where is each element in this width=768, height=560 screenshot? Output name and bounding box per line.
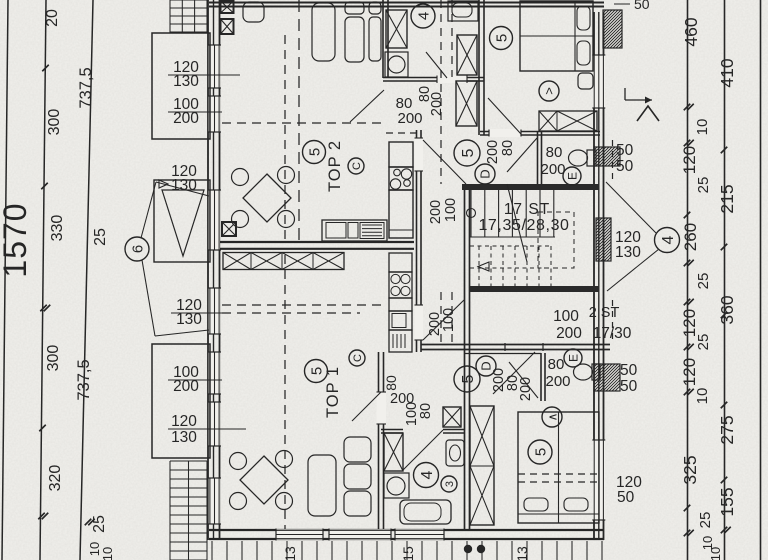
door swing bedroom top-right — [488, 98, 521, 134]
wall bottom apartment hall top — [421, 344, 610, 346]
svg-text:200: 200 — [485, 140, 501, 164]
dim tick — [42, 65, 49, 72]
bath washbasin top-right — [385, 52, 408, 77]
dim tick — [684, 260, 691, 267]
chair TOP1 a — [230, 453, 247, 470]
svg-text:C: C — [352, 354, 364, 362]
svg-text:100: 100 — [441, 308, 457, 332]
dashed lines across bed lower — [518, 473, 599, 475]
stair newel circle — [467, 209, 476, 218]
wall top exterior — [209, 1, 604, 3]
wall bedroom bottom top-right — [480, 131, 600, 133]
wc square bottom — [446, 440, 464, 466]
svg-text:410: 410 — [717, 58, 737, 87]
svg-text:200: 200 — [429, 92, 445, 116]
label circle E wc top — [563, 167, 581, 185]
armchair top left — [243, 2, 264, 22]
small arrow left — [159, 180, 168, 188]
leader from circle 6 up — [141, 182, 156, 238]
wardrobe xbox hall — [456, 81, 477, 126]
pillow bottom a — [524, 498, 548, 511]
dim tick — [684, 104, 691, 111]
svg-text:200: 200 — [556, 325, 582, 342]
svg-text:50: 50 — [620, 378, 638, 395]
pillow bottom b — [564, 498, 588, 511]
dashed projection horizontal TOP2 — [222, 122, 383, 124]
svg-text:50: 50 — [634, 0, 650, 12]
washbasin TOP1 bath — [384, 473, 409, 498]
svg-text:4: 4 — [660, 235, 677, 244]
dim tick — [721, 477, 728, 484]
dim line right inner — [687, 0, 689, 560]
svg-text:200: 200 — [390, 391, 414, 407]
sofa cushion b1 — [345, 2, 364, 14]
sofa TOP1 — [308, 455, 336, 516]
sofa cushion b2 — [345, 17, 364, 62]
stair upper flight treads — [470, 190, 472, 237]
svg-text:13: 13 — [282, 546, 298, 560]
door swing bottom apartment entry — [493, 352, 535, 394]
toilet top-right bath — [448, 1, 478, 21]
svg-text:17 ST: 17 ST — [504, 201, 550, 218]
section circle A bedroom top — [539, 81, 559, 101]
dim tick — [684, 344, 691, 351]
sofa cushion c1 — [369, 2, 381, 14]
svg-text:200: 200 — [397, 110, 422, 127]
toilet wc bottom-right — [574, 364, 593, 380]
dim tick — [39, 425, 46, 432]
hatch block right wall wc window upper — [594, 147, 620, 166]
section circle A bedroom bottom — [542, 407, 562, 427]
svg-text:2 ST: 2 ST — [589, 305, 620, 321]
wall wc left vertical bottom-right — [540, 353, 542, 401]
kitchen TOP2 counter — [389, 190, 413, 238]
door gap bath TOP1 wall — [377, 392, 387, 424]
svg-text:C: C — [351, 162, 363, 170]
svg-text:4: 4 — [419, 470, 436, 479]
svg-text:80: 80 — [546, 144, 563, 161]
svg-text:120: 120 — [171, 413, 197, 430]
svg-text:120: 120 — [680, 146, 699, 174]
bathtub TOP1 — [400, 500, 451, 524]
svg-text:737,5: 737,5 — [75, 359, 93, 400]
chair TOP2 c — [232, 211, 249, 228]
dim tick double — [40, 305, 47, 312]
svg-text:4: 4 — [415, 12, 432, 20]
stair lower flight dashed treads — [478, 246, 480, 290]
window left wall mid — [209, 288, 221, 334]
stair mid line — [470, 236, 555, 238]
door gap bath wall top-right — [437, 76, 467, 84]
balcony triangle box — [154, 180, 210, 262]
door swing wc bottom-right — [509, 362, 538, 398]
svg-text:260: 260 — [681, 223, 700, 251]
svg-text:10: 10 — [100, 547, 115, 560]
dim tick — [721, 244, 728, 251]
door left wall balcony2 — [209, 352, 221, 394]
svg-text:5: 5 — [493, 34, 510, 42]
chair TOP2 d — [278, 211, 295, 228]
window right wall bedroom upper — [593, 55, 605, 108]
dim tick — [684, 299, 691, 306]
svg-text:215: 215 — [717, 184, 737, 213]
door left wall balcony1 — [209, 96, 221, 132]
entrance arrow — [625, 99, 652, 101]
window bottom wall bath — [395, 529, 444, 540]
bath tall cabinet xbox — [457, 35, 477, 75]
svg-text:130: 130 — [171, 429, 197, 446]
wall bath bottom horizontal top-right apartment — [383, 77, 484, 79]
svg-text:13: 13 — [514, 546, 530, 560]
svg-text:5: 5 — [460, 374, 477, 383]
svg-text:360: 360 — [717, 295, 737, 324]
balcony box lower — [152, 344, 210, 458]
leader line from circle 4 to stair wall — [606, 182, 656, 233]
label circle C TOP2 — [348, 158, 364, 174]
leader line 120/130 balcony2 — [168, 428, 246, 430]
svg-text:E: E — [565, 172, 579, 180]
washer xbox TOP1 bath — [384, 433, 403, 471]
wall stair bottom horizontal — [470, 286, 599, 292]
window left wall triangle balcony — [209, 190, 221, 250]
door gap bedroom top-right — [489, 129, 521, 137]
pillow b — [577, 41, 590, 65]
wall right exterior — [593, 12, 595, 540]
toilet wc top-right — [569, 150, 588, 166]
label circle 4 bath bottom — [414, 463, 439, 488]
window left wall balcony2 — [209, 402, 221, 446]
svg-text:25: 25 — [695, 334, 712, 351]
stair dashed landing rect — [538, 212, 574, 268]
leader line 120/130 balcony1 — [168, 74, 240, 76]
svg-text:50: 50 — [617, 489, 635, 506]
label circle 3 bath bottom — [441, 476, 457, 492]
label circle C TOP1 — [349, 350, 365, 366]
svg-text:200: 200 — [427, 312, 443, 336]
label circle 5 hall top — [454, 140, 480, 166]
svg-text:E: E — [566, 354, 580, 362]
label circle 6 — [125, 237, 149, 261]
bath xbox upper — [386, 10, 407, 48]
svg-text:10: 10 — [694, 119, 711, 136]
dim tick — [721, 147, 728, 154]
kitchen TOP1 stove — [389, 272, 412, 298]
dashed vertical right of wc lower — [612, 300, 614, 344]
dashed projection horizontal corridor upper — [386, 132, 420, 134]
kitchen TOP2 sink double — [326, 223, 346, 239]
kitchen TOP1 cabinet — [389, 330, 412, 352]
leader from circle 6 down — [142, 260, 155, 336]
svg-text:TOP 1: TOP 1 — [324, 366, 342, 418]
wall corridor left vertical — [416, 130, 418, 352]
svg-text:330: 330 — [49, 215, 66, 242]
svg-text:200: 200 — [545, 373, 570, 390]
chair TOP2 a — [232, 169, 249, 186]
sideboard xbox row TOP1 — [223, 253, 344, 270]
dim tick double — [38, 513, 45, 520]
svg-text:6: 6 — [129, 245, 146, 253]
label circle 5 bedroom top-right — [490, 27, 513, 50]
svg-text:130: 130 — [176, 311, 202, 328]
dim tick — [41, 183, 48, 190]
wardrobe xbox small hall bottom — [443, 407, 461, 427]
kitchen TOP1 sink — [389, 311, 412, 330]
stair lower dashed bounds — [470, 245, 551, 247]
chair TOP1 d — [276, 493, 293, 510]
svg-text:10: 10 — [694, 388, 711, 405]
label circle 5 TOP2 — [303, 141, 326, 164]
svg-text:80: 80 — [418, 403, 434, 419]
dim line left 737,5 — [80, 0, 93, 560]
door swing bath TOP1 — [352, 392, 381, 421]
wall stair top horizontal — [462, 184, 599, 190]
svg-text:200: 200 — [173, 378, 199, 395]
label circle 4 top — [411, 4, 435, 28]
svg-text:25: 25 — [695, 273, 712, 290]
label circle E wc bottom — [564, 349, 582, 367]
svg-text:130: 130 — [615, 244, 641, 261]
svg-text:737,5: 737,5 — [77, 67, 95, 108]
terrace tick strip bottom — [211, 541, 213, 560]
dim line right middle — [724, 0, 726, 560]
hatch block right wall top balcony door — [603, 10, 622, 48]
svg-text:20: 20 — [44, 9, 61, 27]
dashed corridor vertical a — [440, 0, 442, 184]
dashed projection vertical second — [298, 0, 300, 240]
leader line 120/130 mid wall — [171, 312, 222, 314]
dashed vertical right of wc upper — [612, 140, 614, 184]
svg-text:3: 3 — [444, 481, 456, 487]
nightstand — [578, 73, 593, 89]
kitchen TOP2 stove — [389, 167, 413, 190]
dining table TOP2 — [243, 174, 291, 222]
dashed corridor vertical b — [451, 0, 453, 77]
balcony box upper — [152, 33, 210, 139]
door swing bath top-right inner — [426, 52, 447, 78]
wall stair left vertical — [464, 184, 466, 529]
door swing hall top-right entry — [423, 140, 466, 184]
wall wc left vertical top-right — [537, 131, 539, 184]
stair direction arrow — [478, 262, 489, 271]
dashed corridor vertical a lower — [440, 292, 442, 344]
chair TOP1 b — [276, 451, 293, 468]
wall bedroom left vertical top-right — [478, 0, 480, 135]
svg-text:200: 200 — [518, 377, 534, 401]
svg-text:∧: ∧ — [545, 413, 559, 422]
armchair TOP1 b — [344, 464, 371, 489]
wall living/bath vertical upper — [382, 0, 384, 78]
svg-text:25: 25 — [92, 228, 109, 246]
svg-text:325: 325 — [680, 455, 700, 484]
svg-text:50: 50 — [616, 142, 634, 159]
hatch block right wall stair window — [596, 218, 611, 261]
dim tick — [684, 140, 691, 147]
leader line 100/200 balcony2 — [168, 379, 222, 381]
door swing corridor lower entry TOP1 — [423, 300, 464, 340]
svg-text:1570: 1570 — [0, 202, 33, 277]
dim tick — [684, 530, 691, 537]
svg-text:200: 200 — [540, 161, 565, 178]
svg-text:25: 25 — [91, 515, 108, 533]
svg-text:5: 5 — [460, 148, 477, 157]
dim tick — [684, 505, 691, 512]
door jamb bottom apartment entry — [504, 343, 506, 351]
window left wall balcony1 upper — [209, 45, 221, 88]
label circle 5 TOP1 — [305, 360, 328, 383]
entrance chevron — [637, 106, 659, 121]
wall segment below hall top — [465, 353, 541, 355]
plant xbox TOP2 — [222, 222, 236, 236]
svg-text:25: 25 — [695, 177, 712, 194]
tile hatch strip top left — [170, 0, 207, 1]
dim tick — [721, 312, 728, 319]
dashed corridor vertical b lower — [451, 292, 453, 344]
hatch block right wall wc window lower — [594, 364, 620, 391]
dim line left overall 1570 — [2, 0, 8, 560]
svg-text:275: 275 — [717, 415, 737, 444]
svg-text:17/30: 17/30 — [593, 325, 632, 342]
chair TOP2 b — [278, 167, 295, 184]
dim line left middle — [40, 0, 46, 560]
svg-text:>: > — [542, 87, 557, 95]
sofa tall TOP2 — [312, 3, 335, 61]
door swing bath inner TOP1 — [403, 430, 443, 470]
terrace column dot b — [477, 545, 485, 553]
label circle D hall bottom — [476, 356, 496, 376]
svg-text:320: 320 — [47, 465, 64, 492]
svg-text:155: 155 — [717, 487, 737, 516]
label circle 5 bedroom bottom — [528, 440, 552, 464]
kitchen TOP2 oven lines — [362, 224, 382, 226]
svg-text:5: 5 — [308, 367, 325, 375]
tile hatch strip bottom left — [170, 460, 207, 462]
svg-text:300: 300 — [46, 109, 63, 136]
svg-text:120: 120 — [680, 309, 699, 337]
label circle D hall top — [475, 164, 495, 184]
terrace column dot a — [464, 545, 472, 553]
svg-text:80: 80 — [500, 140, 516, 156]
svg-text:100: 100 — [443, 198, 459, 222]
svg-text:100: 100 — [553, 308, 579, 325]
svg-text:80: 80 — [383, 375, 399, 391]
svg-text:15: 15 — [400, 546, 416, 560]
svg-text:80: 80 — [548, 356, 565, 373]
kitchen TOP2 bottom counter — [322, 220, 387, 241]
dim tick — [684, 212, 691, 219]
wall between TOP2 and TOP1 horizontal — [220, 241, 414, 243]
svg-text:TOP 2: TOP 2 — [326, 140, 344, 192]
wall bath left vertical TOP1 — [378, 352, 380, 529]
svg-text:25: 25 — [697, 512, 714, 529]
window right wall bedroom lower — [593, 440, 605, 520]
svg-text:200: 200 — [173, 110, 199, 127]
svg-text:5: 5 — [532, 448, 549, 456]
window bottom wall living — [276, 529, 323, 540]
svg-text:460: 460 — [681, 17, 701, 46]
label circle 4 right — [655, 228, 680, 253]
door gap corridor wall lower — [415, 305, 424, 340]
svg-text:50: 50 — [620, 362, 638, 379]
window left wall bottom — [209, 478, 221, 524]
door swing wc top-right — [507, 138, 537, 172]
pilaster xbox top b — [221, 19, 234, 34]
svg-text:5: 5 — [306, 148, 323, 156]
leader line from circle 4 down — [607, 249, 659, 291]
wall bottom exterior — [209, 529, 604, 531]
bed top-right — [520, 1, 593, 71]
dashed projection vertical left living — [284, 35, 286, 240]
bench xbox at bed foot — [539, 111, 597, 131]
svg-text:D: D — [478, 169, 493, 178]
dim tick double bottom — [85, 519, 92, 526]
kitchen TOP1 counter mid — [389, 298, 412, 311]
dim line right outer — [760, 0, 762, 560]
dashed projection horizontal TOP1 a — [222, 304, 383, 306]
triangle shape — [162, 190, 204, 256]
kitchen TOP2 fridge — [389, 142, 413, 167]
wall bath top horizontal TOP1 — [381, 429, 403, 431]
label circle 5 hall bottom — [454, 366, 480, 392]
wall left exterior — [207, 0, 209, 540]
chair TOP1 c — [230, 493, 247, 510]
stair break line — [507, 184, 527, 262]
armchair TOP1 a — [344, 437, 371, 462]
dashed projection horizontal TOP1 b — [222, 312, 360, 314]
dim tick — [684, 389, 691, 396]
bedroom wardrobe xbox tall — [470, 406, 494, 525]
dim tick — [721, 527, 728, 534]
dining table TOP1 — [240, 456, 288, 504]
door bottom wall living — [329, 529, 391, 540]
svg-text:130: 130 — [173, 73, 199, 90]
svg-text:200: 200 — [428, 200, 444, 224]
leader line 100/200 balcony1 — [168, 111, 222, 113]
dim tick — [721, 402, 728, 409]
sofa cushion c2 — [369, 17, 381, 61]
kitchen TOP1 top counter — [389, 253, 412, 272]
pillow a — [577, 6, 590, 30]
door swing bath top door to living — [350, 90, 384, 122]
svg-text:120: 120 — [680, 358, 699, 386]
svg-text:10: 10 — [708, 547, 723, 560]
armchair TOP1 c — [344, 491, 371, 516]
pilaster xbox top a — [221, 1, 234, 13]
svg-text:300: 300 — [45, 345, 62, 372]
svg-text:17,35/28,30: 17,35/28,30 — [478, 217, 569, 234]
bed bottom-right — [518, 412, 599, 523]
door gap corridor wall upper — [415, 138, 424, 171]
